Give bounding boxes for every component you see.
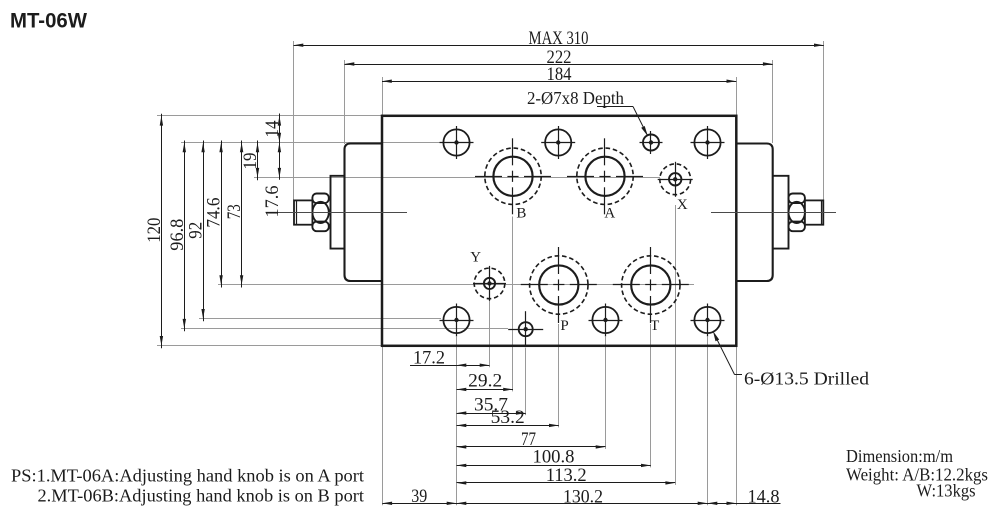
dimension 113.2 xyxy=(457,465,676,486)
port P label xyxy=(560,318,568,334)
dimension 39 xyxy=(382,486,456,507)
port X label xyxy=(677,197,688,213)
extension line right cap edge xyxy=(772,60,774,143)
dimension 77 xyxy=(457,429,606,450)
dimension 29.2 xyxy=(457,370,514,391)
svg-text:MT-06W: MT-06W xyxy=(10,10,87,33)
port B xyxy=(475,138,551,214)
extension column body left bottom xyxy=(382,346,384,506)
dimension 14 xyxy=(262,114,283,143)
row line through Y P T ports xyxy=(218,284,694,286)
svg-text:17.2: 17.2 xyxy=(413,348,445,369)
svg-text:Dimension:m/m: Dimension:m/m xyxy=(846,446,953,466)
dimension 96.8 xyxy=(167,141,188,332)
valve body outline xyxy=(382,116,736,346)
dimension 14.8 xyxy=(708,487,781,508)
left adjusting screw xyxy=(294,200,312,224)
left spacer block xyxy=(331,176,345,249)
extension line top edge left xyxy=(157,115,382,117)
extension line left cap edge xyxy=(344,60,346,144)
right end cap xyxy=(736,144,772,282)
port Y xyxy=(473,266,506,301)
extension column body right bottom xyxy=(736,346,738,506)
dimension 73 xyxy=(224,141,245,288)
dimension 35.7 xyxy=(457,394,526,415)
extension column port T xyxy=(650,324,652,467)
dimension 120 xyxy=(144,114,165,348)
note PS line 2 xyxy=(38,486,365,506)
svg-text:130.2: 130.2 xyxy=(563,487,603,508)
left screw centerline xyxy=(277,212,407,214)
svg-text:Y: Y xyxy=(470,250,481,266)
extension line left screw tip xyxy=(293,41,295,200)
svg-text:P: P xyxy=(560,318,568,334)
svg-text:184: 184 xyxy=(547,64,572,85)
extension column port B xyxy=(512,217,514,392)
extension line bottom edge left xyxy=(157,345,382,347)
dimension 222 xyxy=(345,47,773,68)
dimension 53.2 xyxy=(457,407,559,428)
extension line bottom small hole row xyxy=(181,328,508,330)
port T label xyxy=(650,318,659,334)
extension column bolt bottom-middle xyxy=(605,337,607,449)
svg-text:53.2: 53.2 xyxy=(491,407,525,428)
svg-text:X: X xyxy=(677,197,688,213)
port T xyxy=(613,247,689,323)
extension column port Y xyxy=(489,301,491,367)
dimension 17.6 xyxy=(262,143,283,218)
extension line body right top xyxy=(736,77,738,116)
dimension 19 xyxy=(240,141,261,181)
svg-text:A: A xyxy=(604,205,615,221)
right adjusting screw xyxy=(805,200,823,224)
left hex lock nut xyxy=(312,194,328,232)
note weight W xyxy=(917,481,976,501)
dimension 130.2 xyxy=(457,487,708,508)
svg-text:W:13kgs: W:13kgs xyxy=(917,481,976,501)
svg-text:39: 39 xyxy=(411,486,427,507)
port A xyxy=(567,138,643,214)
svg-text:2-Ø7x8 Depth: 2-Ø7x8 Depth xyxy=(527,88,624,108)
note PS line 1 xyxy=(11,466,364,486)
dimension 17.2 xyxy=(410,348,490,369)
extension column bolt bottom-right xyxy=(707,337,709,505)
bolt hole bottom-middle xyxy=(589,304,623,337)
gauge hole top 7x8 depth xyxy=(640,131,663,154)
note dimension units xyxy=(846,446,953,466)
svg-text:6-Ø13.5 Drilled: 6-Ø13.5 Drilled xyxy=(744,368,869,388)
svg-text:17.6: 17.6 xyxy=(262,186,283,218)
gauge hole bottom 7x8 depth xyxy=(508,311,543,347)
port Y label xyxy=(470,250,481,266)
dimension 100.8 xyxy=(457,446,651,467)
right hex lock nut xyxy=(789,194,805,232)
title MT-06W xyxy=(10,10,87,33)
svg-text:T: T xyxy=(650,318,659,334)
bolt hole top-left xyxy=(440,126,474,159)
port B label xyxy=(516,205,526,221)
svg-text:14: 14 xyxy=(262,120,283,137)
bolt hole top-middle xyxy=(541,126,575,159)
row line through B A X ports xyxy=(254,177,660,179)
extension line body left top xyxy=(382,77,384,116)
port P xyxy=(521,247,597,323)
svg-text:PS:1.MT-06A:Adjusting hand kno: PS:1.MT-06A:Adjusting hand knob is on A … xyxy=(11,466,364,486)
svg-text:74.6: 74.6 xyxy=(204,198,225,228)
right screw centerline xyxy=(711,212,836,214)
svg-text:120: 120 xyxy=(144,218,165,243)
svg-text:2.MT-06B:Adjusting hand knob i: 2.MT-06B:Adjusting hand knob is on B por… xyxy=(38,486,365,506)
extension line right screw tip xyxy=(823,41,825,200)
extension column bolt bottom-left xyxy=(456,337,458,505)
bolt hole bottom-right xyxy=(691,304,725,337)
svg-text:14.8: 14.8 xyxy=(748,487,780,508)
label 6-O13.5 Drilled xyxy=(713,331,869,388)
extension column port P xyxy=(558,324,560,427)
extension column port X xyxy=(675,205,677,485)
dimension 184 xyxy=(382,64,736,85)
extension line bolt row xyxy=(181,142,441,144)
right spacer block xyxy=(773,176,789,249)
port X xyxy=(658,162,693,197)
bolt hole top-right xyxy=(691,126,725,159)
note weight AB xyxy=(846,465,988,485)
dimension 74.6 xyxy=(204,141,225,288)
port A label xyxy=(604,205,615,221)
bolt hole bottom-left xyxy=(440,304,474,337)
dimension 92 xyxy=(186,141,207,322)
extension line bottom bolt row xyxy=(199,318,441,320)
svg-text:19: 19 xyxy=(240,153,261,170)
extension column small hole bottom xyxy=(525,348,527,415)
left end cap xyxy=(345,144,383,282)
svg-text:73: 73 xyxy=(224,204,245,219)
svg-text:B: B xyxy=(516,205,526,221)
dimension MAX 310 xyxy=(294,28,824,49)
svg-text:29.2: 29.2 xyxy=(468,370,502,391)
svg-text:113.2: 113.2 xyxy=(546,465,587,486)
label 2-O7x8 Depth xyxy=(527,88,648,136)
